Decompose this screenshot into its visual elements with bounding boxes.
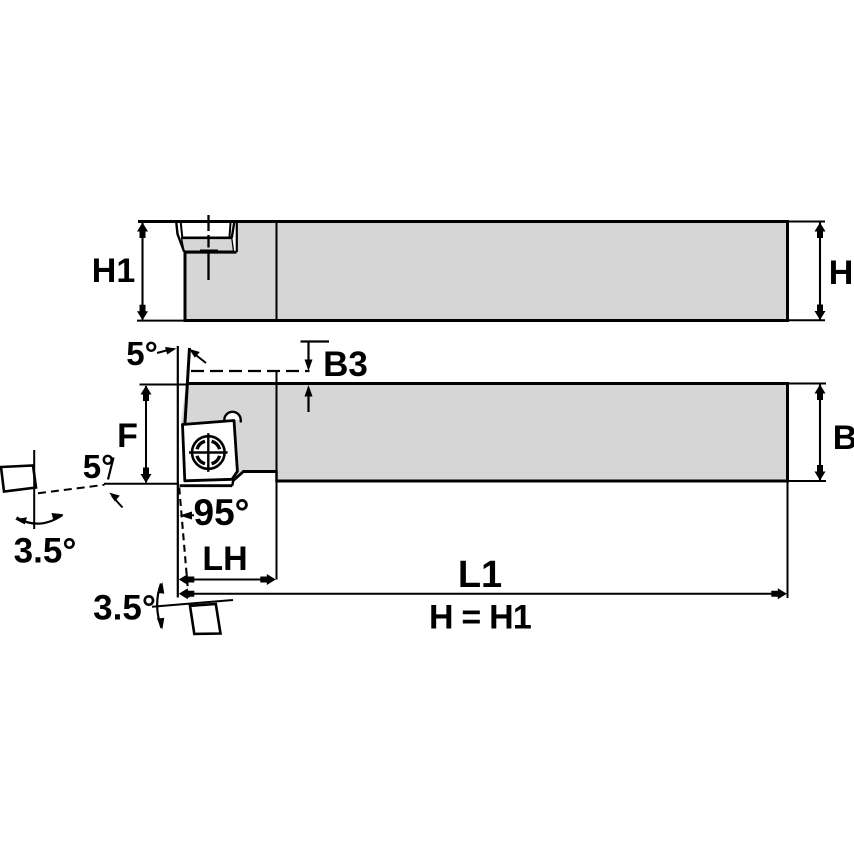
insert top view	[183, 421, 238, 481]
clamp screw	[189, 433, 228, 472]
H dimension line	[819, 223, 821, 320]
shim (gray trapezoid)	[182, 238, 234, 251]
F extension top	[140, 384, 187, 386]
insert side view bottom edge	[182, 237, 232, 240]
svg-text:F: F	[117, 417, 138, 455]
leader to extension line	[157, 350, 168, 353]
slanted top line	[152, 600, 233, 607]
L1 dimension	[179, 554, 787, 599]
B dimension	[789, 384, 854, 482]
B extension top	[789, 383, 826, 385]
dashed cutting edge plane line	[191, 370, 310, 372]
5 deg lower label	[83, 448, 123, 508]
svg-text:3.5°: 3.5°	[14, 532, 77, 571]
95 deg label	[180, 492, 250, 533]
svg-text:H1: H1	[92, 252, 135, 290]
3.5 deg arc	[17, 515, 63, 524]
F dim line	[145, 386, 147, 483]
F arrow down	[141, 468, 152, 484]
svg-text:B3: B3	[323, 345, 368, 384]
pocket bottom line under insert	[180, 484, 233, 487]
insert right edge inner	[230, 223, 231, 237]
dashed tilted edge line to P1	[38, 485, 105, 494]
B dimension line	[819, 385, 821, 481]
H1 dimension	[92, 223, 186, 321]
H arrow up	[815, 223, 826, 239]
insert right edge outer	[232, 223, 234, 238]
H1 arrow up	[137, 223, 148, 239]
svg-text:H: H	[829, 254, 854, 292]
svg-text:LH: LH	[202, 540, 247, 578]
head leading slant edge	[185, 348, 190, 426]
insert pocket notch (white)	[177, 223, 238, 253]
B extension bottom	[789, 480, 826, 482]
svg-text:B: B	[833, 419, 854, 457]
P1 edge-on insert view far left	[1, 450, 76, 571]
pocket left wall outer	[176, 223, 184, 252]
H1 dimension line	[141, 223, 143, 320]
tip plane line	[104, 483, 179, 485]
svg-text:95°: 95°	[194, 492, 250, 533]
arrow onto slant edge	[192, 352, 206, 363]
extension line at insert tip	[177, 346, 179, 598]
shank bottom edge	[277, 480, 788, 483]
svg-text:H = H1: H = H1	[429, 599, 531, 637]
svg-text:5°: 5°	[83, 448, 115, 485]
F arrow up	[141, 386, 152, 402]
svg-text:L1: L1	[458, 554, 502, 596]
95 deg dashed reference line	[179, 488, 189, 603]
H extension bottom	[789, 319, 825, 321]
B3 upper leader	[301, 340, 330, 342]
P2 edge-on insert view bottom	[93, 582, 233, 634]
5 deg upper label	[126, 335, 206, 372]
H arrow down	[815, 305, 826, 321]
screw axis center line	[200, 215, 218, 280]
3.5 deg arc	[157, 584, 161, 629]
H1 extension line bottom	[137, 320, 186, 322]
body top edge	[186, 382, 788, 385]
svg-text:3.5°: 3.5°	[93, 589, 156, 628]
B arrow down	[815, 465, 826, 481]
pocket back wall	[236, 222, 238, 252]
insert left edge inner	[181, 223, 183, 238]
body top view gray	[181, 384, 788, 482]
slash leader	[108, 458, 114, 480]
H dimension	[789, 222, 853, 321]
pocket diagonal edge	[233, 472, 244, 481]
B arrow up	[815, 385, 826, 401]
body right edge	[786, 382, 789, 483]
F dimension	[104, 385, 186, 484]
H extension top	[789, 221, 825, 223]
head step	[275, 471, 278, 483]
extension line at body right end	[787, 482, 789, 598]
head/shank boundary line (side view)	[276, 222, 278, 320]
top edge line	[138, 220, 788, 223]
B3 dimension	[301, 342, 368, 413]
LH dimension	[179, 540, 276, 585]
svg-text:5°: 5°	[126, 335, 158, 372]
head bottom edge	[243, 470, 278, 473]
pocket bottom line	[184, 251, 237, 254]
H1 arrow down	[137, 305, 148, 321]
screw hole arc behind insert	[224, 412, 240, 420]
vertical reference line	[33, 450, 35, 529]
pocket bottom connector	[232, 480, 233, 486]
extension line at head end	[276, 372, 278, 580]
B3 lower arrow	[307, 390, 309, 412]
arrow to vertex	[112, 496, 123, 508]
body side view	[185, 222, 788, 321]
